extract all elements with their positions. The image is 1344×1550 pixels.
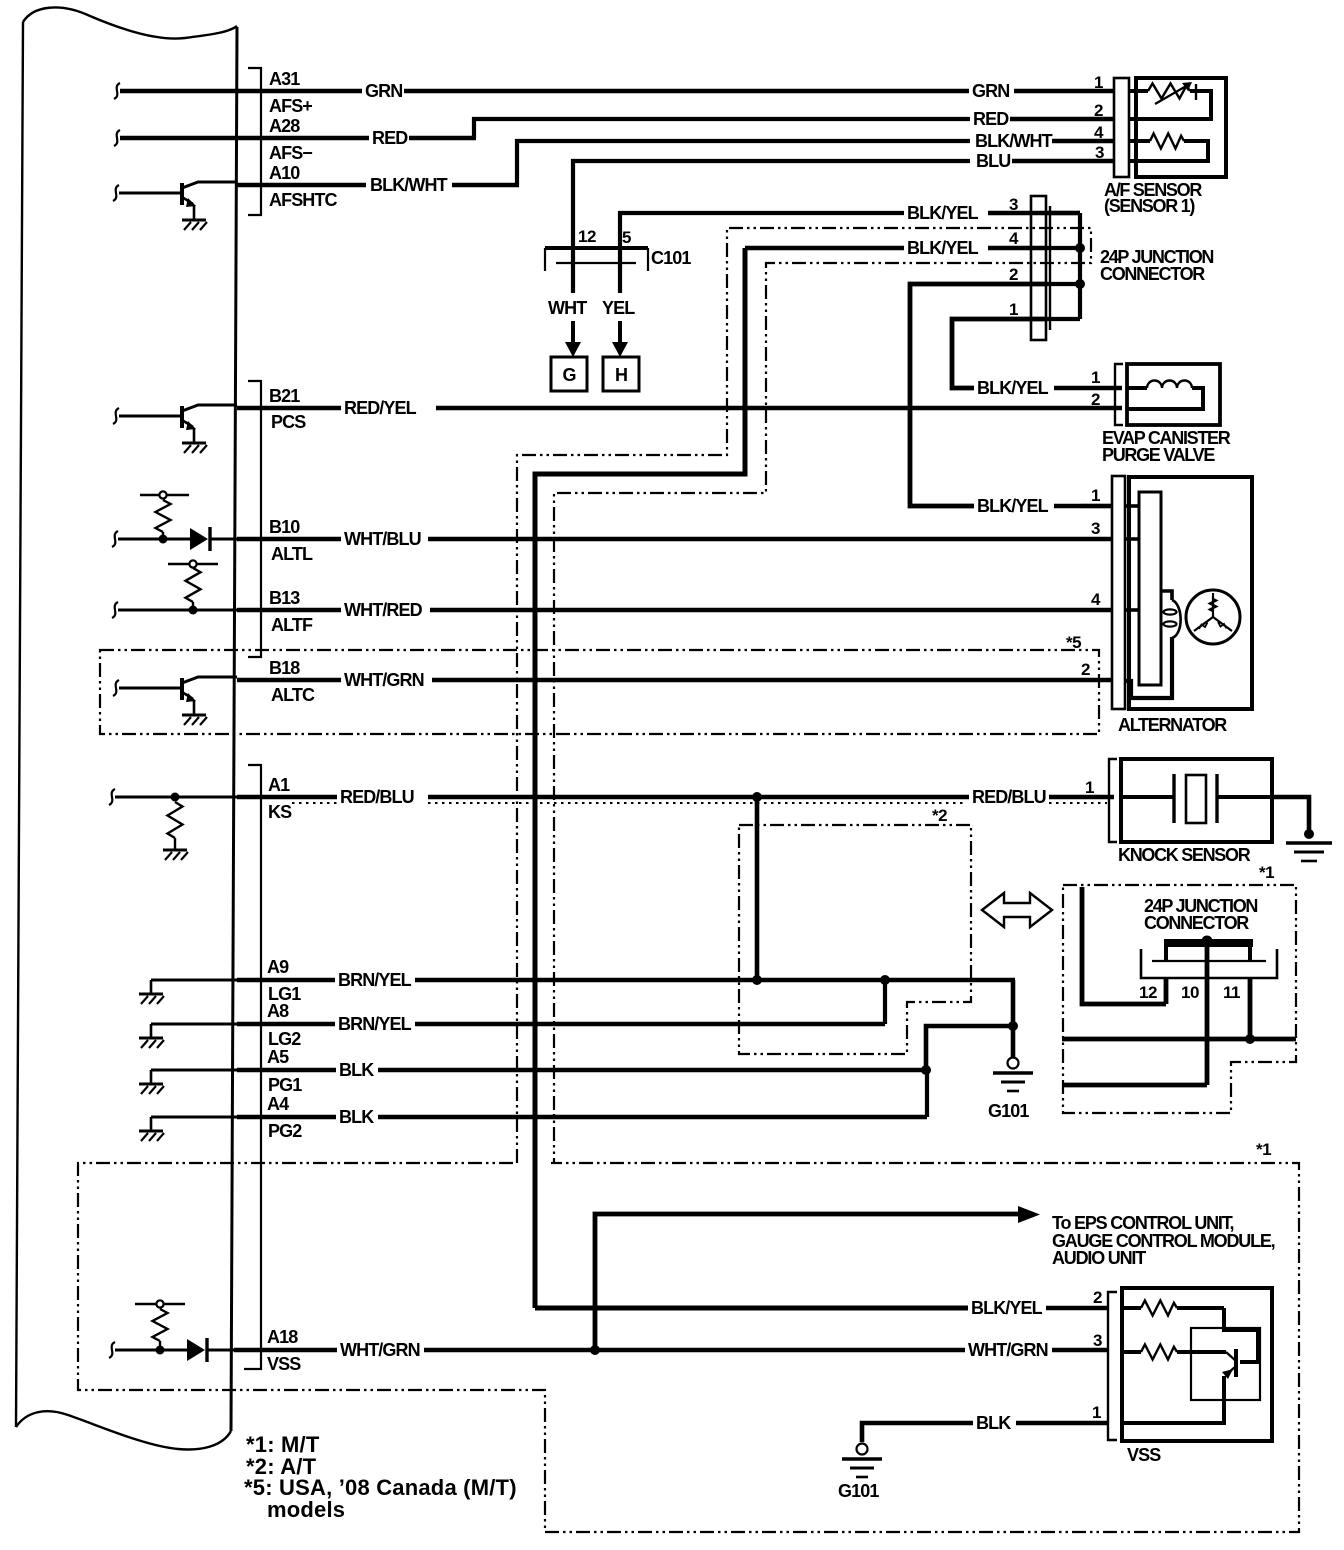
24P bottom jumper bar	[1164, 939, 1253, 947]
ECM band bottom wavy edge	[16, 1411, 231, 1449]
svg-text:4: 4	[1094, 123, 1104, 142]
svg-text:PCS: PCS	[271, 412, 306, 432]
svg-text:H: H	[615, 365, 627, 385]
wire A5 BLK	[237, 1068, 336, 1073]
svg-text:A5: A5	[267, 1047, 289, 1067]
junction dot A1 branch	[752, 792, 762, 802]
junction dot A18 stub	[156, 1346, 165, 1355]
junction dot A5/A4	[921, 1065, 931, 1075]
svg-text:PG2: PG2	[268, 1121, 302, 1141]
svg-text:RED: RED	[973, 109, 1009, 129]
svg-text:BLK/WHT: BLK/WHT	[975, 131, 1053, 151]
svg-text:A4: A4	[267, 1094, 289, 1114]
A/F sensor heater element (pins 1-2 loop)	[1129, 89, 1148, 93]
svg-text:12: 12	[1139, 983, 1157, 1002]
svg-text:*2: *2	[932, 806, 947, 825]
svg-text:CONNECTOR: CONNECTOR	[1100, 264, 1205, 284]
VSS pin2 resistor to collector	[1122, 1306, 1141, 1310]
svg-text:KNOCK SENSOR: KNOCK SENSOR	[1118, 845, 1251, 865]
svg-text:VSS: VSS	[1127, 1445, 1161, 1465]
svg-text:RED/YEL: RED/YEL	[344, 398, 417, 418]
wire 24P pin4 BLK/YEL from trunk	[745, 246, 904, 251]
junction dot bus pin2	[1075, 279, 1085, 289]
wire BRN/YEL drop to G101 node	[1011, 980, 1016, 1026]
svg-text:WHT/RED: WHT/RED	[344, 600, 423, 620]
EVAP valve connector bracket	[1115, 364, 1123, 425]
svg-text:B10: B10	[269, 517, 300, 537]
junction dot G101 node	[1008, 1021, 1018, 1031]
wire A28 RED	[120, 136, 369, 141]
svg-text:GRN: GRN	[365, 81, 402, 101]
svg-text:2: 2	[1094, 101, 1103, 120]
svg-text:*1: *1	[1259, 863, 1274, 882]
connector C101	[545, 246, 648, 250]
svg-text:B13: B13	[269, 588, 300, 608]
VSS output transistor	[1234, 1349, 1238, 1377]
svg-text:G101: G101	[988, 1101, 1029, 1121]
svg-text:1: 1	[1091, 486, 1100, 505]
dashed M/T variant routing channel	[517, 228, 1091, 1163]
wire bus through pin 11	[1062, 1037, 1296, 1042]
svg-text:BLK/WHT: BLK/WHT	[370, 175, 448, 195]
svg-text:B21: B21	[269, 386, 300, 406]
wire A4 BLK joining A5	[237, 1115, 336, 1120]
junction dot EPS branch	[590, 1345, 600, 1355]
VSS pin3 resistor to base	[1122, 1350, 1141, 1354]
alternator box	[1129, 477, 1252, 709]
svg-text:VSS: VSS	[267, 1354, 301, 1374]
wire 24P pin1 down to EVAP pin 1	[952, 319, 1046, 388]
wire B21 RED/YEL to EVAP pin 2	[237, 406, 341, 411]
ground G101 lead	[1011, 1026, 1016, 1058]
VSS inner transistor box	[1191, 1328, 1260, 1400]
B10 stub and diode	[112, 531, 118, 547]
svg-text:BLU: BLU	[976, 151, 1010, 171]
svg-text:AFSHTC: AFSHTC	[269, 190, 337, 210]
svg-text:4: 4	[1091, 590, 1101, 609]
dashed box *1 M/T junction connector region	[1063, 885, 1296, 1113]
svg-text:1: 1	[1094, 73, 1103, 92]
bracket pin group B21-B18	[248, 381, 261, 657]
A5 ground stub	[151, 1069, 237, 1072]
wire B10 WHT/BLU to alternator pin 3	[237, 537, 341, 542]
knock sensor ground lead	[1272, 797, 1309, 833]
alternator pin 1 stub	[1081, 504, 1112, 508]
svg-text:BLK/YEL: BLK/YEL	[907, 203, 979, 223]
A1 stub with resistor to ground	[109, 789, 115, 805]
svg-text:WHT/BLU: WHT/BLU	[344, 529, 421, 549]
24P junction internal bus	[1078, 213, 1082, 319]
svg-text:LG2: LG2	[268, 1029, 301, 1049]
svg-text:RED/BLU: RED/BLU	[972, 787, 1046, 807]
alternator field coil	[1161, 591, 1172, 600]
svg-text:BRN/YEL: BRN/YEL	[338, 1014, 412, 1034]
svg-text:RED: RED	[372, 128, 408, 148]
svg-text:BLK: BLK	[339, 1060, 374, 1080]
EVAP valve solenoid coil	[1127, 386, 1147, 390]
wire A9 BRN/YEL	[237, 978, 335, 983]
wire BLK/YEL trunk from 24P pin4 to VSS pin2	[535, 248, 745, 1308]
wire B13 WHT/RED to alternator pin 4	[237, 608, 341, 613]
alternator regulator inner bar	[1139, 492, 1161, 685]
ground symbol G101 bottom	[857, 1444, 868, 1455]
svg-text:CONNECTOR: CONNECTOR	[1144, 913, 1249, 933]
svg-text:G101: G101	[838, 1481, 879, 1501]
svg-text:ALTERNATOR: ALTERNATOR	[1118, 715, 1227, 735]
svg-text:C101: C101	[651, 248, 691, 268]
svg-text:A31: A31	[269, 69, 300, 89]
svg-text:A9: A9	[267, 957, 289, 977]
junction dot bus pin4	[1075, 243, 1085, 253]
transistor A10 driver with ground	[113, 185, 119, 201]
svg-text:WHT/GRN: WHT/GRN	[968, 1340, 1048, 1360]
wire RED riser and upper run to A/F pin 2	[474, 119, 970, 138]
svg-text:1: 1	[1091, 368, 1100, 387]
svg-text:2: 2	[1009, 265, 1018, 284]
B13 pull-up rail and resistor	[168, 563, 218, 565]
wire B18 WHT/GRN to alternator pin 2	[237, 678, 341, 683]
24P bottom connector tray	[1141, 949, 1277, 978]
ECM band top wavy edge	[23, 7, 237, 38]
svg-text:WHT/GRN: WHT/GRN	[344, 670, 424, 690]
svg-text:A8: A8	[267, 1001, 289, 1021]
alternator internal stubs	[1125, 504, 1139, 508]
svg-text:KS: KS	[268, 802, 292, 822]
VSS box	[1122, 1288, 1272, 1441]
wire BLU from C101 pin 12 to A/F sensor pin 3	[573, 161, 970, 246]
svg-text:BLK: BLK	[976, 1413, 1011, 1433]
dashed box *5 USA/Canada variant	[100, 650, 1099, 734]
wire A10 BLK/WHT	[237, 183, 366, 188]
C101 pin 12 lead below	[571, 248, 575, 293]
A/F sensor box	[1136, 78, 1226, 177]
arrow to G	[571, 321, 575, 343]
wire BLK from VSS pin 1 to G101	[1016, 1421, 1108, 1426]
svg-text:10: 10	[1181, 983, 1199, 1002]
svg-text:1: 1	[1092, 1403, 1101, 1422]
knock sensor connector bracket	[1109, 759, 1117, 842]
svg-text:A1: A1	[268, 775, 290, 795]
junction dot pin 11 bus	[1245, 1034, 1255, 1044]
junction dot riser at BRN/YEL	[752, 975, 762, 985]
svg-text:2: 2	[1093, 1288, 1102, 1307]
branch riser from RED/BLU to BRN/YEL bus	[755, 797, 760, 980]
alternator connector bar	[1112, 476, 1125, 709]
svg-text:ALTC: ALTC	[271, 685, 315, 705]
knock sensor element	[1121, 795, 1174, 799]
alternator field return path	[1125, 637, 1172, 698]
arrow to H	[618, 321, 622, 343]
svg-text:3: 3	[1091, 519, 1100, 538]
wire BLK riser to G101 node	[926, 1026, 1013, 1070]
svg-text:A18: A18	[267, 1327, 298, 1347]
A9 ground stub	[151, 979, 237, 982]
junction dot B10 stub	[159, 535, 168, 544]
A/F sensor sensing element (pins 4-3 loop)	[1129, 139, 1150, 143]
svg-text:11: 11	[1223, 983, 1240, 1002]
A18 pull-up rail and resistor	[135, 1303, 185, 1305]
destination box G	[551, 357, 587, 391]
dotted A/T variant line under RED/BLU	[292, 802, 337, 804]
24P junction connector bar	[1031, 196, 1046, 340]
earth ground at knock sensor	[1286, 841, 1332, 845]
svg-text:ALTF: ALTF	[271, 615, 313, 635]
ground symbol G101	[1008, 1058, 1019, 1069]
svg-text:4: 4	[1009, 229, 1019, 248]
svg-text:12: 12	[578, 227, 596, 246]
svg-text:A10: A10	[269, 163, 300, 183]
svg-text:A28: A28	[269, 116, 300, 136]
svg-text:AFS+: AFS+	[269, 96, 312, 116]
bracket pin group A1-A18	[244, 765, 261, 1369]
wire A31 GRN	[120, 89, 362, 94]
bracket pin group A31/A28/A10	[248, 68, 261, 215]
svg-text:BLK/YEL: BLK/YEL	[971, 1298, 1043, 1318]
ECM band right edge	[231, 27, 237, 1431]
svg-text:1: 1	[1085, 778, 1094, 797]
junction dot A9/A8	[880, 975, 890, 985]
wire A1 RED/BLU to knock sensor	[237, 795, 337, 800]
EVAP valve box	[1127, 364, 1220, 425]
svg-text:ALTL: ALTL	[271, 544, 313, 564]
svg-text:PURGE VALVE: PURGE VALVE	[1102, 445, 1215, 465]
svg-text:BLK/YEL: BLK/YEL	[977, 496, 1049, 516]
A4 ground stub	[151, 1116, 237, 1119]
svg-text:BLK: BLK	[339, 1107, 374, 1127]
24P bottom pin legs	[1164, 978, 1169, 1004]
A8 ground stub	[151, 1023, 237, 1026]
destination box H	[603, 357, 639, 391]
svg-text:B18: B18	[269, 658, 300, 678]
VSS connector bracket	[1108, 1292, 1117, 1440]
knock sensor box	[1121, 759, 1272, 842]
wire BLK/WHT riser and upper run to A/F pin 4	[517, 141, 970, 185]
wire A8 BRN/YEL joining A9	[237, 1022, 335, 1027]
svg-text:AUDIO UNIT: AUDIO UNIT	[1052, 1248, 1146, 1268]
svg-text:models: models	[267, 1497, 345, 1522]
C101 pin 5 lead below	[618, 248, 622, 293]
svg-text:AFS−: AFS−	[269, 143, 312, 163]
svg-text:BLK/YEL: BLK/YEL	[977, 378, 1049, 398]
double arrow variant swap symbol	[982, 893, 1052, 927]
dashed box *2 A/T variant	[739, 825, 971, 1054]
svg-text:PG1: PG1	[268, 1075, 302, 1095]
svg-text:WHT: WHT	[548, 298, 587, 318]
svg-text:5: 5	[622, 228, 631, 247]
wire BLK/YEL into VSS pin 2	[535, 1306, 968, 1311]
svg-text:1: 1	[1009, 300, 1018, 319]
svg-text:2: 2	[1081, 660, 1090, 679]
A18 stub and diode	[109, 1342, 115, 1358]
transistor B18 driver with ground	[113, 680, 119, 696]
svg-text:*1: *1	[1256, 1140, 1271, 1159]
transistor B21 driver with ground	[113, 408, 119, 424]
junction dot B13 stub	[189, 606, 198, 615]
svg-text:G: G	[562, 365, 575, 385]
wire 24P pin 12 feed	[1082, 887, 1166, 1004]
svg-text:3: 3	[1095, 143, 1104, 162]
A/F sensor connector bar	[1114, 78, 1129, 177]
svg-text:BLK/YEL: BLK/YEL	[907, 238, 979, 258]
wire BLK/YEL from C101 pin 5 to 24P junction pin 3	[620, 213, 904, 246]
svg-text:3: 3	[1093, 1331, 1102, 1350]
wire 24P pin 10 run	[1063, 1083, 1207, 1088]
ECM connector band left edge	[16, 22, 23, 1427]
svg-text:WHT/GRN: WHT/GRN	[340, 1340, 420, 1360]
B10 pull-up rail and resistor	[140, 494, 189, 496]
svg-text:To EPS CONTROL UNIT,: To EPS CONTROL UNIT,	[1052, 1213, 1234, 1233]
dashed box *1 bottom M/T region	[78, 1163, 1299, 1532]
B13 stub	[112, 602, 118, 618]
svg-text:(SENSOR 1): (SENSOR 1)	[1104, 196, 1195, 216]
wire A18 WHT/GRN to VSS pin 3	[234, 1348, 337, 1353]
svg-text:GRN: GRN	[972, 81, 1009, 101]
svg-text:RED/BLU: RED/BLU	[340, 787, 414, 807]
alternator rotor	[1186, 590, 1240, 644]
svg-text:YEL: YEL	[602, 298, 635, 318]
svg-text:3: 3	[1009, 195, 1018, 214]
wire branch to EPS control unit with arrow	[595, 1214, 1018, 1350]
wire 24P pin2 down to alternator pin 1	[910, 284, 1046, 506]
svg-text:BRN/YEL: BRN/YEL	[338, 970, 412, 990]
junction dot jumper	[1202, 936, 1213, 947]
